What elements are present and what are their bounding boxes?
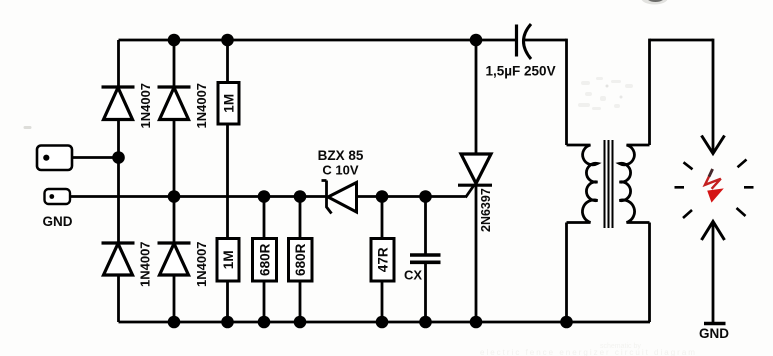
node bottom B	[168, 316, 181, 329]
svg-text:BZX 85: BZX 85	[318, 148, 364, 163]
svg-text:CX: CX	[404, 268, 422, 283]
wire spark top lead	[712, 39, 715, 154]
svg-text:1M: 1M	[222, 94, 237, 113]
svg-text:GND: GND	[43, 214, 73, 229]
node terminal1	[112, 151, 125, 164]
svg-text:2N6397: 2N6397	[479, 188, 493, 232]
svg-text:680R: 680R	[258, 243, 273, 276]
wire spark bottom lead	[712, 222, 715, 323]
svg-text:1N4007: 1N4007	[138, 83, 153, 129]
wire transformer right top lead	[648, 39, 651, 145]
wire transformer left bottom lead	[565, 223, 568, 323]
svg-text:47R: 47R	[376, 247, 391, 272]
svg-text:schematic by: schematic by	[600, 343, 641, 350]
capacitor CX	[410, 253, 441, 257]
wire top rail	[119, 39, 516, 42]
svg-text:1N4007: 1N4007	[138, 241, 153, 287]
artifact dash top-left	[24, 126, 32, 129]
node mid E	[294, 190, 307, 203]
spark gap bottom arrow	[702, 222, 725, 241]
artifact ghost speckles above transformer	[578, 77, 633, 110]
wire transformer left top lead	[565, 39, 568, 145]
thyristor Q1 2N6397	[461, 154, 491, 184]
wire transformer right bottom lead	[648, 223, 651, 323]
artifact blob top	[646, 0, 665, 2]
transformer T1 core	[605, 140, 613, 228]
svg-text:C 10V: C 10V	[322, 163, 358, 178]
spark bolt	[705, 169, 721, 189]
svg-text:1,5µF 250V: 1,5µF 250V	[486, 64, 556, 79]
wire top-right link	[650, 39, 714, 42]
wire column D	[263, 197, 266, 323]
wire capacitor to transformer	[523, 39, 567, 42]
wire column F	[381, 197, 384, 323]
wire column E	[299, 197, 302, 323]
node bottom H	[470, 316, 483, 329]
wire terminal1 to node	[71, 156, 119, 159]
diode D4 1N4007	[158, 241, 191, 244]
resistor R4 680R	[289, 239, 313, 282]
wire bottom rail	[119, 321, 651, 324]
node bottom F	[376, 316, 389, 329]
spark gap top arrow	[702, 136, 725, 154]
resistor R1 1M top	[218, 83, 239, 125]
wire column G	[424, 197, 427, 323]
node bottom E	[294, 316, 307, 329]
node bottom J	[560, 316, 573, 329]
svg-text:electric fence energizer circu: electric fence energizer circuit diagram	[480, 348, 697, 356]
node mid B	[168, 190, 181, 203]
wire column H thyristor	[475, 40, 478, 322]
spark rays	[675, 160, 754, 219]
terminal J1	[37, 146, 72, 171]
diode D2 1N4007	[158, 85, 191, 88]
wire column B	[173, 40, 176, 322]
wire middle rail	[70, 195, 466, 198]
resistor R2 1M bottom	[217, 239, 239, 282]
node top H	[470, 34, 483, 47]
wire gate diagonal	[466, 185, 475, 198]
svg-text:1N4007: 1N4007	[194, 241, 209, 287]
node mid G	[419, 190, 432, 203]
transformer T1 secondary winding	[620, 145, 650, 223]
node top B	[168, 34, 181, 47]
svg-text:GND: GND	[699, 326, 729, 341]
svg-text:1N4007: 1N4007	[194, 83, 209, 129]
node bottom G	[419, 316, 432, 329]
node mid D	[258, 190, 271, 203]
zener diode ZD1 BZX85C10V	[322, 181, 332, 214]
node top C	[221, 34, 234, 47]
svg-text:680R: 680R	[293, 243, 308, 276]
resistor R5 47R	[371, 239, 394, 282]
transformer T1 primary winding	[567, 145, 598, 223]
resistor R3 680R	[253, 239, 277, 282]
ground right	[704, 322, 726, 326]
node bottom D	[258, 316, 271, 329]
diode D1 1N4007	[102, 85, 135, 88]
wire column C	[226, 40, 229, 322]
terminal J2 GND	[45, 189, 71, 204]
wire column A	[117, 40, 120, 322]
diode D3 1N4007	[102, 241, 135, 244]
node mid F	[376, 190, 389, 203]
node bottom C	[221, 316, 234, 329]
svg-text:1M: 1M	[221, 250, 236, 269]
capacitor C1 1,5uF 250V	[515, 25, 518, 57]
